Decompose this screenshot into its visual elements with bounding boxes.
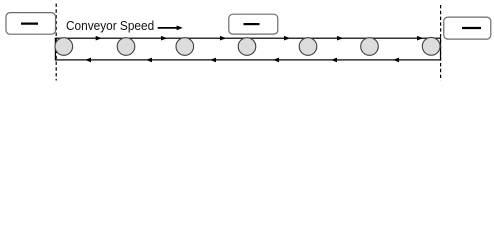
top belt arrowhead 1 bbox=[96, 36, 102, 41]
left datum dashed line bbox=[55, 4, 57, 81]
roller 1 bbox=[55, 38, 73, 56]
roller 4 bbox=[238, 38, 256, 56]
roller 3 bbox=[176, 38, 194, 56]
bottom belt arrowhead 3 bbox=[210, 58, 216, 63]
box B3 (top-right) bbox=[444, 17, 491, 39]
bottom belt arrowhead 2 bbox=[146, 58, 152, 63]
belt loop outline (top run, right end, return run, left end) bbox=[55, 38, 440, 60]
box B2 (top-middle) bbox=[229, 14, 278, 34]
dash label in box B3 bbox=[462, 27, 481, 29]
roller 6 bbox=[361, 38, 379, 56]
label: Conveyor Speed bbox=[66, 18, 154, 33]
top belt arrowhead 3 bbox=[220, 36, 226, 41]
right datum dashed line bbox=[440, 5, 442, 81]
top belt arrowhead 6 bbox=[417, 36, 423, 41]
dash label in box B1 bbox=[21, 23, 38, 25]
roller 2 bbox=[117, 38, 135, 56]
dash label in box B2 bbox=[244, 23, 260, 25]
roller 5 bbox=[299, 38, 317, 56]
roller 7 bbox=[422, 37, 440, 55]
top belt arrowhead 5 bbox=[337, 36, 343, 41]
bottom belt arrowhead 1 bbox=[85, 58, 91, 63]
box B1 (top-left) bbox=[6, 13, 56, 35]
conveyor speed direction arrow bbox=[158, 27, 178, 29]
bottom belt arrowhead 6 bbox=[393, 58, 399, 63]
top belt arrowhead 4 bbox=[284, 36, 290, 41]
top belt arrowhead 2 bbox=[161, 36, 167, 41]
bottom belt arrowhead 5 bbox=[331, 58, 337, 63]
bottom belt arrowhead 4 bbox=[273, 58, 279, 63]
